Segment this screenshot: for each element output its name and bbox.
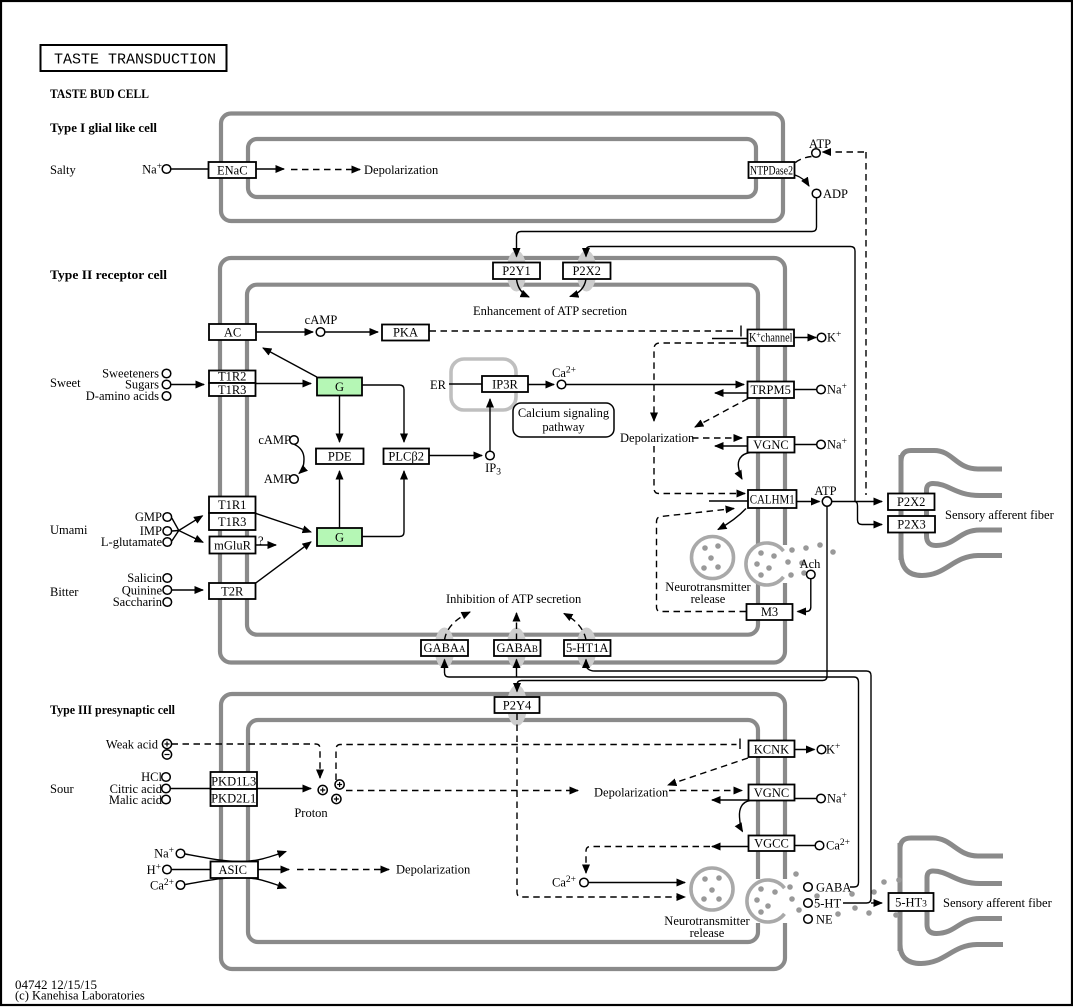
svg-text:ATP: ATP bbox=[814, 484, 836, 498]
svg-text:ER: ER bbox=[430, 378, 447, 392]
svg-text:Weak acid: Weak acid bbox=[106, 738, 159, 752]
svg-text:GABAA: GABAA bbox=[424, 641, 466, 655]
svg-text:Malic acid: Malic acid bbox=[109, 793, 163, 807]
svg-text:mGluR: mGluR bbox=[214, 539, 251, 553]
svg-text:ENaC: ENaC bbox=[217, 164, 248, 178]
svg-text:Enhancement of ATP secretion: Enhancement of ATP secretion bbox=[473, 304, 628, 318]
svg-text:T1R1: T1R1 bbox=[218, 498, 246, 512]
svg-text:Saccharin: Saccharin bbox=[113, 595, 163, 609]
svg-text:IP3R: IP3R bbox=[492, 378, 518, 392]
svg-text:T1R3: T1R3 bbox=[218, 383, 246, 397]
svg-text:PKD2L1: PKD2L1 bbox=[211, 792, 256, 806]
svg-text:PKA: PKA bbox=[393, 326, 418, 340]
svg-text:Bitter: Bitter bbox=[50, 585, 79, 599]
svg-text:CALHM1: CALHM1 bbox=[750, 493, 795, 507]
svg-text:ATP: ATP bbox=[809, 137, 831, 151]
svg-text:5-HT: 5-HT bbox=[814, 897, 841, 911]
svg-text:Depolarization: Depolarization bbox=[594, 786, 669, 800]
svg-text:G: G bbox=[335, 380, 344, 394]
svg-text:VGNC: VGNC bbox=[753, 438, 788, 452]
svg-text:K+channel: K+channel bbox=[749, 331, 793, 345]
svg-text:TASTE BUD CELL: TASTE BUD CELL bbox=[50, 86, 149, 101]
svg-text:cAMP: cAMP bbox=[258, 433, 291, 447]
svg-text:P2Y4: P2Y4 bbox=[503, 699, 532, 713]
svg-text:AMP: AMP bbox=[264, 472, 291, 486]
svg-text:?: ? bbox=[258, 534, 264, 548]
svg-text:NE: NE bbox=[816, 913, 833, 927]
svg-text:5-HT1A: 5-HT1A bbox=[566, 641, 608, 655]
svg-text:P2X2: P2X2 bbox=[572, 264, 600, 278]
svg-text:Inhibition of ATP secretion: Inhibition of ATP secretion bbox=[446, 592, 582, 606]
svg-text:P2X2: P2X2 bbox=[897, 495, 925, 509]
svg-text:KCNK: KCNK bbox=[754, 743, 789, 757]
svg-text:Proton: Proton bbox=[294, 806, 328, 820]
svg-text:(c) Kanehisa Laboratories: (c) Kanehisa Laboratories bbox=[15, 989, 145, 1003]
svg-text:release: release bbox=[690, 926, 725, 940]
svg-text:Umami: Umami bbox=[50, 523, 88, 537]
svg-text:T1R3: T1R3 bbox=[218, 515, 246, 529]
svg-text:Type III presynaptic cell: Type III presynaptic cell bbox=[50, 703, 175, 717]
svg-text:GABA: GABA bbox=[816, 881, 851, 895]
svg-text:PKD1L3: PKD1L3 bbox=[211, 775, 256, 789]
svg-text:GABAB: GABAB bbox=[496, 641, 537, 655]
svg-text:T2R: T2R bbox=[221, 585, 244, 599]
svg-text:TRPM5: TRPM5 bbox=[751, 383, 791, 397]
svg-text:Depolarization: Depolarization bbox=[620, 431, 695, 445]
svg-text:cAMP: cAMP bbox=[305, 313, 338, 327]
svg-text:P2X3: P2X3 bbox=[897, 518, 925, 532]
svg-text:T1R2: T1R2 bbox=[218, 370, 246, 384]
svg-text:P2Y1: P2Y1 bbox=[502, 264, 530, 278]
svg-text:L-glutamate: L-glutamate bbox=[101, 535, 163, 549]
svg-text:Type II receptor cell: Type II receptor cell bbox=[50, 268, 168, 282]
svg-text:Sensory afferent fiber: Sensory afferent fiber bbox=[943, 896, 1053, 910]
svg-text:PLCβ2: PLCβ2 bbox=[388, 450, 424, 464]
svg-text:Sweet: Sweet bbox=[50, 376, 81, 390]
svg-text:M3: M3 bbox=[761, 605, 778, 619]
svg-text:ASIC: ASIC bbox=[218, 863, 246, 877]
svg-text:Depolarization: Depolarization bbox=[364, 163, 439, 177]
svg-text:VGCC: VGCC bbox=[754, 837, 789, 851]
svg-text:VGNC: VGNC bbox=[754, 786, 789, 800]
svg-text:Salty: Salty bbox=[50, 163, 76, 177]
svg-text:D-amino acids: D-amino acids bbox=[86, 389, 159, 403]
svg-text:Type I glial like cell: Type I glial like cell bbox=[50, 121, 158, 135]
svg-text:PDE: PDE bbox=[328, 450, 352, 464]
svg-text:Sensory afferent fiber: Sensory afferent fiber bbox=[945, 508, 1055, 522]
svg-text:Depolarization: Depolarization bbox=[396, 863, 471, 877]
svg-text:AC: AC bbox=[224, 326, 241, 340]
svg-text:Ach: Ach bbox=[800, 557, 822, 571]
svg-text:Calcium signaling: Calcium signaling bbox=[518, 406, 610, 420]
svg-text:pathway: pathway bbox=[542, 420, 585, 434]
svg-text:release: release bbox=[691, 592, 726, 606]
svg-text:TASTE TRANSDUCTION: TASTE TRANSDUCTION bbox=[54, 52, 216, 69]
svg-text:G: G bbox=[335, 531, 344, 545]
svg-text:Sour: Sour bbox=[50, 782, 74, 796]
svg-text:NTPDase2: NTPDase2 bbox=[750, 164, 793, 178]
svg-text:GMP: GMP bbox=[135, 510, 162, 524]
svg-text:ADP: ADP bbox=[823, 187, 848, 201]
